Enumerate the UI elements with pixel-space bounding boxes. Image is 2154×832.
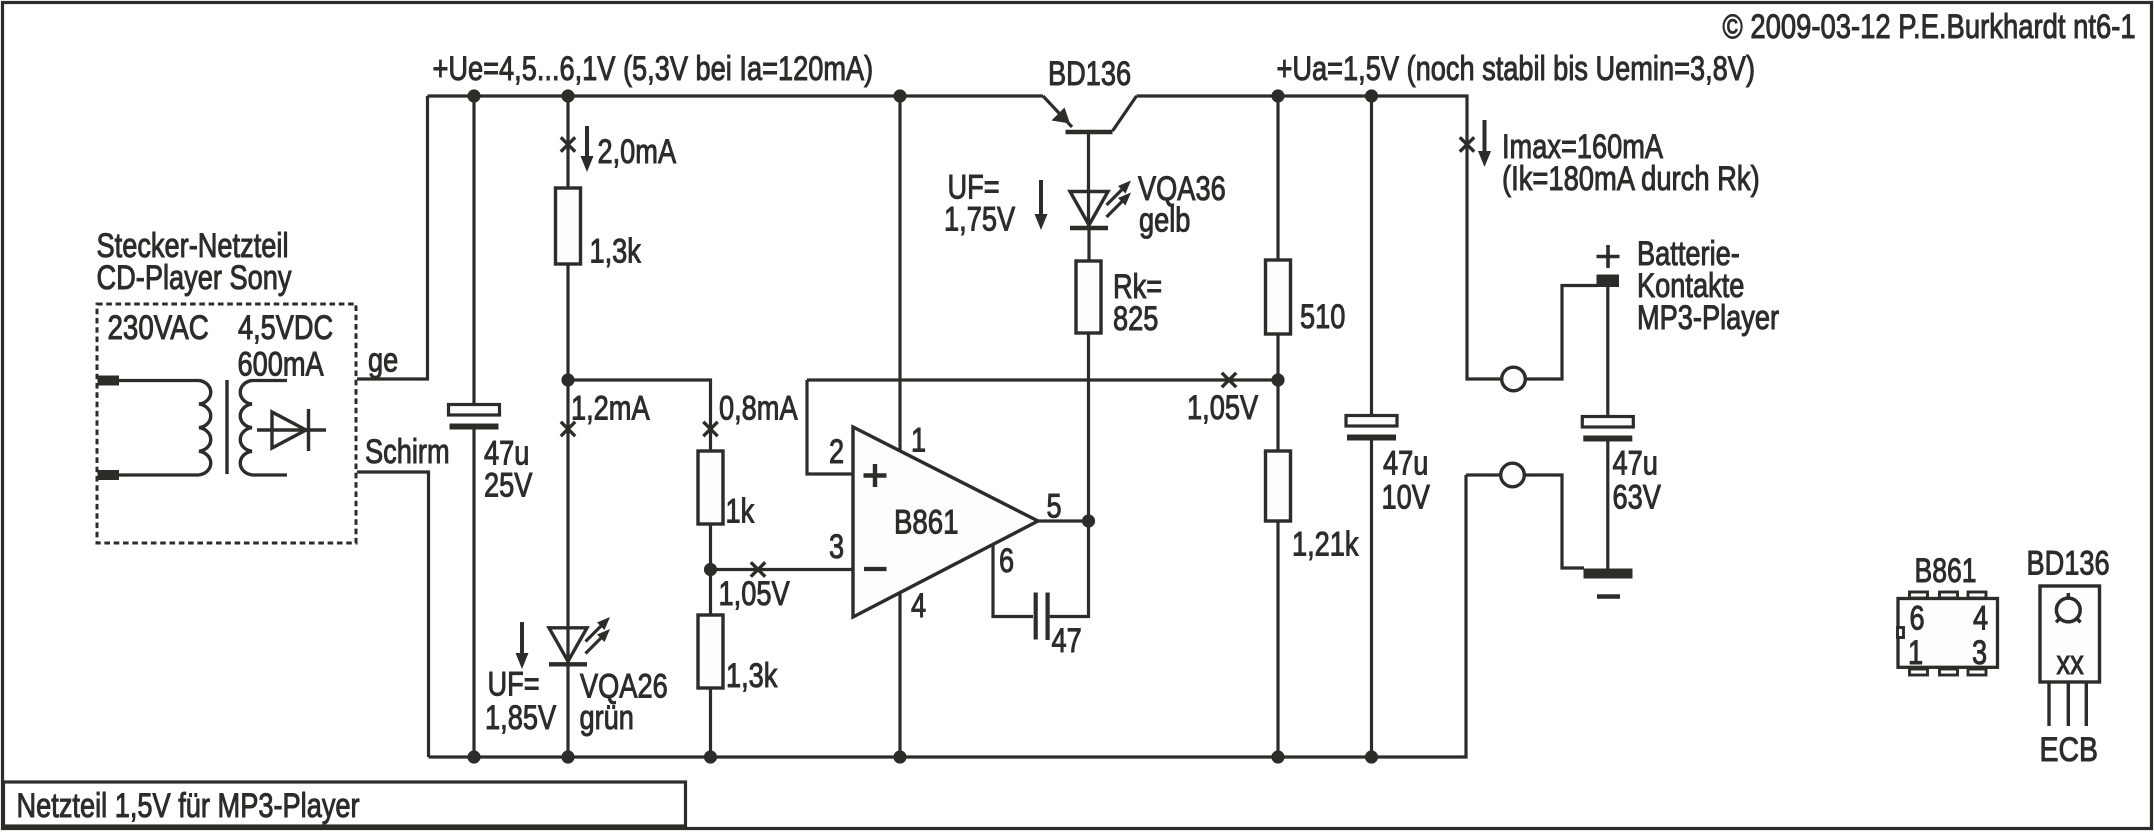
B861 package body bbox=[1898, 599, 1998, 668]
junction +Ue / C1 bbox=[467, 89, 480, 102]
LED D2 VQA36 yellow bbox=[1070, 192, 1108, 226]
junction ground / C3 bbox=[1365, 750, 1378, 763]
svg-text:+Ue=4,5...6,1V (5,3V bei Ia=12: +Ue=4,5...6,1V (5,3V bei Ia=120mA) bbox=[433, 50, 874, 88]
junction output node bbox=[1082, 514, 1095, 527]
svg-text:4: 4 bbox=[1973, 600, 1988, 638]
svg-text:4: 4 bbox=[911, 587, 926, 625]
wire node A down to LED D1 (1,2mA branch) bbox=[566, 380, 569, 663]
wire primary top lead bbox=[119, 379, 199, 382]
resistor R5 1,21k bbox=[1266, 451, 1291, 521]
wire R4 to divider node bbox=[1276, 334, 1279, 380]
svg-text:BD136: BD136 bbox=[2027, 545, 2110, 583]
svg-text:gelb: gelb bbox=[1139, 202, 1190, 240]
wire C2 to output node bbox=[1050, 521, 1089, 617]
wire +Ua rail to output jack bbox=[1137, 96, 1502, 379]
wire R2 to node B bbox=[709, 524, 712, 570]
svg-text:6: 6 bbox=[1910, 600, 1925, 638]
transistor Q1 base bar bbox=[1066, 130, 1113, 135]
junction +Ua / C3 bbox=[1365, 89, 1378, 102]
resistor Rk 825 bbox=[1076, 261, 1101, 333]
resistor R4 510 bbox=[1266, 260, 1291, 334]
transformer T1 secondary winding bbox=[240, 381, 252, 475]
svg-text:ge: ge bbox=[368, 342, 398, 380]
wire LED D2 to Rk bbox=[1087, 227, 1090, 261]
svg-text:xx: xx bbox=[2057, 644, 2084, 682]
measuring point x on LED branch bbox=[561, 422, 575, 436]
svg-text:600mA: 600mA bbox=[238, 346, 324, 384]
junction ground / LED D1 bbox=[561, 750, 574, 763]
BD136 lead B bbox=[2085, 682, 2088, 726]
output jack circle minus bbox=[1501, 463, 1525, 487]
svg-text:(Ik=180mA durch Rk): (Ik=180mA durch Rk) bbox=[1502, 160, 1760, 198]
wire ground rail bbox=[429, 475, 1467, 757]
wire +Ue to R1 bbox=[566, 96, 569, 188]
resistor R2 1k bbox=[698, 451, 723, 524]
wire secondary top lead bbox=[252, 379, 287, 382]
wire LED D1 to ground rail bbox=[566, 663, 569, 757]
wire +Ue rail left segment bbox=[428, 94, 1044, 97]
wire C3 to ground rail bbox=[1370, 436, 1373, 757]
measuring point x on R1 branch bbox=[561, 137, 575, 151]
svg-text:47: 47 bbox=[1052, 622, 1082, 660]
wire battery contact to C4 bbox=[1606, 287, 1609, 416]
svg-text:1: 1 bbox=[911, 422, 926, 460]
svg-text:3: 3 bbox=[1972, 634, 1987, 672]
svg-text:1,2mA: 1,2mA bbox=[571, 390, 650, 428]
svg-text:1,3k: 1,3k bbox=[590, 233, 642, 271]
wire R1 to node A bbox=[566, 264, 569, 380]
svg-text:CD-Player Sony: CD-Player Sony bbox=[97, 259, 292, 297]
wire op-amp pin4 to ground rail bbox=[898, 593, 901, 757]
junction +Ua / R4 bbox=[1271, 89, 1284, 102]
primary terminal bottom bbox=[98, 470, 120, 480]
wire Rk to output node bbox=[1087, 333, 1090, 521]
BD136 lead E bbox=[2047, 682, 2050, 726]
transformer T1 primary winding bbox=[199, 381, 211, 475]
B861 package bottom pin 2 bbox=[1940, 669, 1958, 675]
capacitor C1 47u 25V bbox=[449, 405, 500, 416]
svg-text:© 2009-03-12 P.E.Burkhardt nt6: © 2009-03-12 P.E.Burkhardt nt6-1 bbox=[1723, 8, 2136, 46]
op-amp minus input sign bbox=[864, 567, 887, 571]
wire R3 to ground rail bbox=[709, 688, 712, 757]
wire node B to R3 bbox=[709, 570, 712, 616]
battery contact plus bbox=[1597, 275, 1620, 288]
wire return to jack minus bbox=[1466, 473, 1501, 476]
svg-text:825: 825 bbox=[1113, 300, 1158, 338]
capacitor C4 47u 63V bbox=[1582, 417, 1633, 428]
title box bbox=[4, 782, 686, 826]
wire primary bottom lead bbox=[119, 473, 199, 476]
primary terminal top bbox=[98, 376, 120, 386]
battery contact minus bbox=[1584, 569, 1633, 579]
B861 package top pin 2 bbox=[1940, 592, 1958, 598]
svg-text:BD136: BD136 bbox=[1048, 55, 1131, 93]
wire Q1 base to LED D2 bbox=[1087, 134, 1090, 227]
node A junction bbox=[561, 373, 574, 386]
svg-text:1: 1 bbox=[1908, 634, 1923, 672]
current arrow Imax bbox=[1483, 120, 1487, 154]
wire jack minus to battery contact minus bbox=[1524, 475, 1584, 568]
rectifier diode symbol bbox=[257, 428, 326, 431]
measuring point x 1,05V at divider bbox=[1222, 373, 1236, 387]
op-amp plus input sign bbox=[864, 464, 887, 487]
battery minus sign bbox=[1597, 594, 1620, 598]
wire Schirm down to ground rail bbox=[357, 472, 429, 757]
BD136 lead C bbox=[2067, 682, 2070, 726]
svg-text:2,0mA: 2,0mA bbox=[598, 133, 677, 171]
B861 pin1 notch bbox=[1898, 628, 1904, 638]
wire C1 to ground rail bbox=[472, 425, 475, 757]
op-amp U1 B861 triangle bbox=[853, 427, 1038, 617]
wire reference net 1,05V to divider node bbox=[807, 378, 1278, 381]
transistor Q1 collector lead bbox=[1113, 96, 1137, 131]
svg-text:grün: grün bbox=[580, 699, 634, 737]
LED D2 emission arrows bbox=[1107, 185, 1128, 206]
svg-text:B861: B861 bbox=[894, 504, 959, 542]
wire op-amp pin2 path bbox=[807, 380, 852, 474]
wire op-amp output pin5 bbox=[1038, 519, 1089, 522]
transistor Q1 emitter arrow (PNP) bbox=[1052, 108, 1071, 124]
B861 package top pin 1 bbox=[1910, 592, 1928, 598]
svg-text:Schirm: Schirm bbox=[365, 433, 450, 471]
wire node B to op-amp pin 3 bbox=[711, 568, 853, 571]
B861 package top pin 3 bbox=[1968, 592, 1986, 598]
junction ground / C1 bbox=[467, 750, 480, 763]
svg-text:1,21k: 1,21k bbox=[1292, 526, 1359, 564]
svg-text:1,05V: 1,05V bbox=[719, 575, 790, 613]
svg-text:63V: 63V bbox=[1613, 479, 1662, 517]
wire C4 to battery contact minus bbox=[1606, 437, 1609, 569]
svg-text:6: 6 bbox=[999, 542, 1014, 580]
B861 package bottom pin 1 bbox=[1910, 669, 1928, 675]
svg-text:Netzteil 1,5V für MP3-Player: Netzteil 1,5V für MP3-Player bbox=[17, 787, 360, 825]
BD136 mounting hole bbox=[2056, 598, 2080, 622]
battery plus sign bbox=[1597, 245, 1620, 268]
measuring point x Imax bbox=[1460, 137, 1474, 151]
wire op-amp pin1 to +Ue rail bbox=[898, 96, 901, 451]
BD136 package body bbox=[2040, 586, 2100, 682]
svg-text:1,05V: 1,05V bbox=[1187, 389, 1258, 427]
measuring point x 1,05V at pin3 bbox=[751, 562, 765, 576]
svg-text:25V: 25V bbox=[484, 467, 533, 505]
svg-text:47u: 47u bbox=[1613, 445, 1658, 483]
current arrow UF 1,75V bbox=[1039, 180, 1043, 217]
svg-text:3: 3 bbox=[829, 528, 844, 566]
junction ground / R5 bbox=[1271, 750, 1284, 763]
svg-text:0,8mA: 0,8mA bbox=[719, 390, 798, 428]
svg-text:+Ua=1,5V (noch stabil bis Uemi: +Ua=1,5V (noch stabil bis Uemin=3,8V) bbox=[1277, 50, 1756, 88]
svg-text:ECB: ECB bbox=[2040, 731, 2099, 769]
svg-text:47u: 47u bbox=[1383, 445, 1428, 483]
junction divider node bbox=[1271, 373, 1284, 386]
wire +Ua to C3 bbox=[1370, 96, 1373, 415]
wire node A to R2 (0,8mA branch) bbox=[568, 380, 711, 451]
output jack circle plus bbox=[1502, 367, 1526, 391]
LED D1 emission arrows bbox=[586, 621, 607, 642]
svg-text:4,5VDC: 4,5VDC bbox=[238, 309, 333, 347]
capacitor C2 47 plates bbox=[1036, 593, 1048, 641]
LED D1 VQA26 green bbox=[549, 628, 587, 662]
svg-text:MP3-Player: MP3-Player bbox=[1637, 299, 1779, 337]
wire jack plus to battery contact bbox=[1525, 286, 1597, 380]
svg-text:2: 2 bbox=[829, 433, 844, 471]
transformer T1 core bbox=[225, 380, 228, 474]
junction ground / R3 bbox=[704, 750, 717, 763]
wire R5 to ground rail bbox=[1276, 521, 1279, 757]
node B junction bbox=[704, 563, 717, 576]
resistor R3 1,3k bbox=[698, 615, 723, 688]
wire pin6 to C2 bbox=[993, 544, 1033, 617]
wire +Ua to R4 bbox=[1276, 96, 1279, 260]
measuring point x on R2 branch bbox=[703, 422, 717, 436]
junction +Ue / op-amp pin1 bbox=[893, 89, 906, 102]
resistor R1 1,3k bbox=[556, 188, 581, 264]
svg-text:1,85V: 1,85V bbox=[485, 699, 556, 737]
dashed adapter box bbox=[97, 304, 356, 543]
svg-text:B861: B861 bbox=[1915, 552, 1977, 590]
svg-text:1k: 1k bbox=[726, 493, 755, 531]
B861 package bottom pin 3 bbox=[1968, 669, 1986, 675]
capacitor C3 47u 10V bbox=[1346, 416, 1397, 427]
svg-text:UF=: UF= bbox=[488, 666, 540, 704]
current arrow 2,0mA bbox=[585, 126, 589, 159]
wire ge to +Ue rail bbox=[357, 96, 428, 379]
svg-text:510: 510 bbox=[1300, 298, 1345, 336]
junction +Ue / R1 bbox=[561, 89, 574, 102]
wire divider node to R5 bbox=[1276, 380, 1279, 451]
wire secondary bottom lead bbox=[252, 473, 287, 476]
svg-text:1,75V: 1,75V bbox=[944, 201, 1015, 239]
junction ground / op-amp pin4 bbox=[893, 750, 906, 763]
wire +Ue to C1 bbox=[472, 96, 475, 404]
svg-text:230VAC: 230VAC bbox=[108, 309, 209, 347]
svg-text:1,3k: 1,3k bbox=[726, 657, 778, 695]
transistor Q1 emitter lead bbox=[1043, 96, 1072, 127]
current arrow UF 1,85V bbox=[520, 622, 524, 656]
svg-text:10V: 10V bbox=[1382, 479, 1431, 517]
